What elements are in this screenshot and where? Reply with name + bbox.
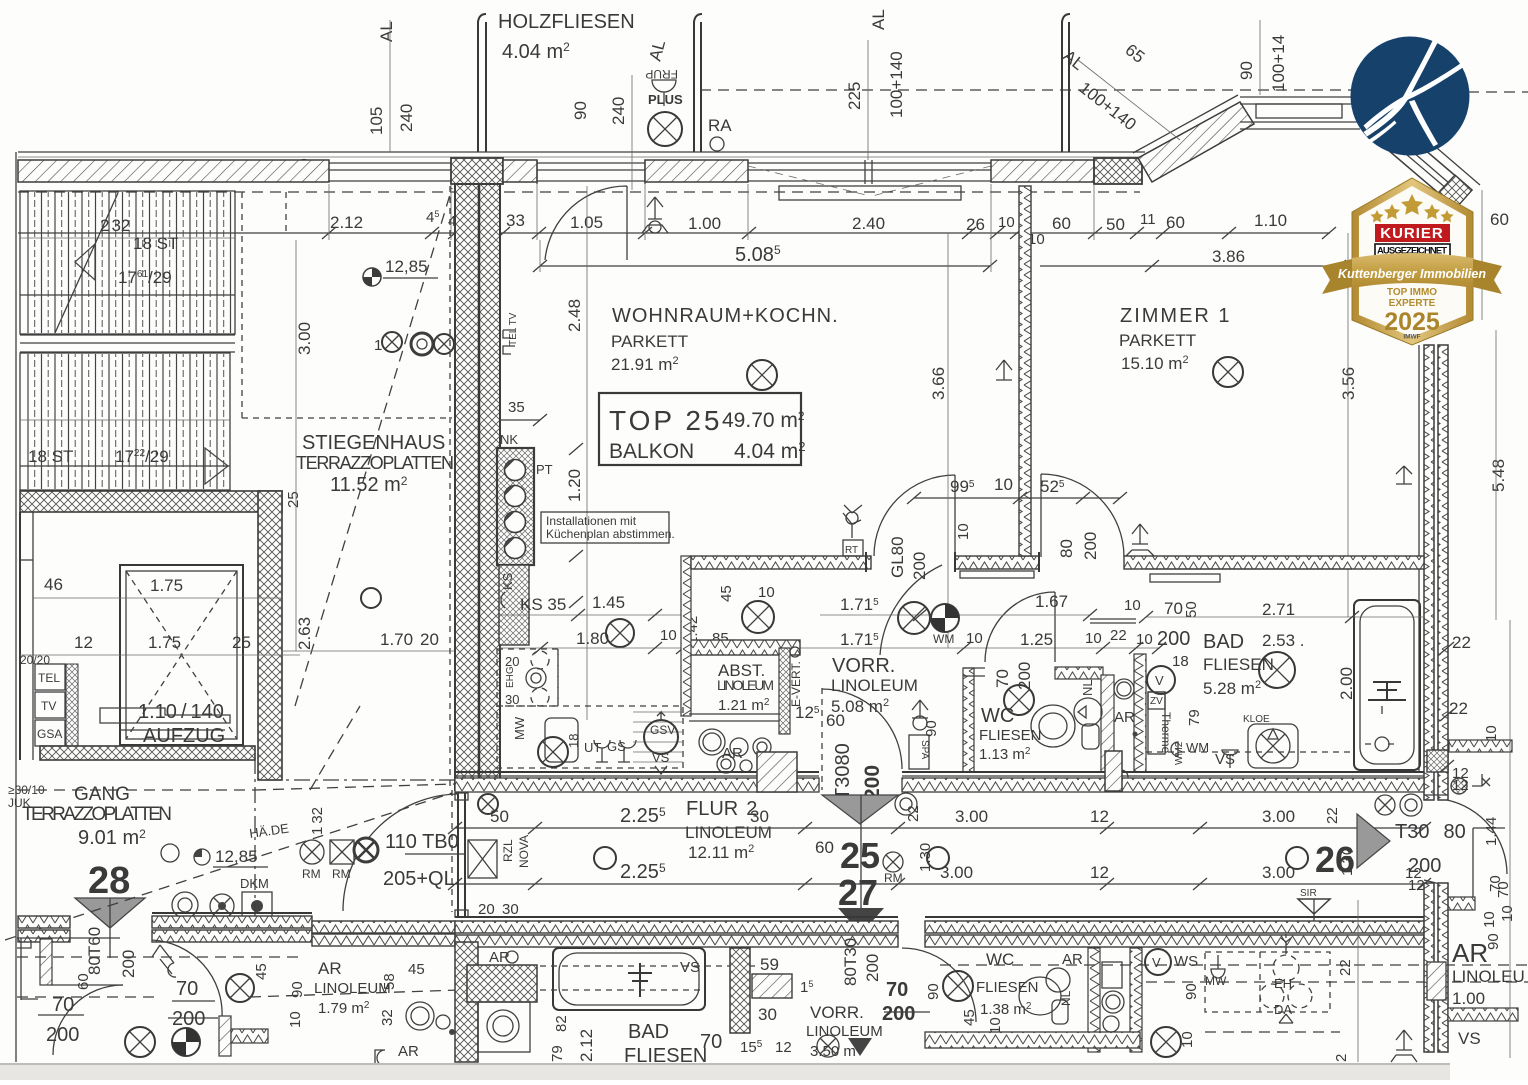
svg-text:1.00: 1.00 <box>1452 989 1485 1008</box>
svg-text:110 TB0: 110 TB0 <box>385 831 459 853</box>
corridor south wall segments <box>18 913 1424 947</box>
ribbon <box>1322 259 1352 294</box>
bathtub <box>1354 600 1420 770</box>
svg-text:1.21 m2: 1.21 m2 <box>718 697 770 714</box>
svg-text:105: 105 <box>367 107 386 135</box>
long dashed diagonal HAE.DE line <box>5 793 452 940</box>
svg-text:1.45: 1.45 <box>592 593 625 612</box>
horizontal bathtub <box>553 948 705 1010</box>
svg-text:AR: AR <box>318 959 342 978</box>
svg-text:50: 50 <box>1183 601 1200 618</box>
balcony rail mid <box>694 14 702 152</box>
svg-text:WOHNRAUM+KOCHN.: WOHNRAUM+KOCHN. <box>612 305 839 327</box>
svg-text:9.01 m2: 9.01 m2 <box>78 827 146 849</box>
corridor north wall (y772-793) left segment <box>455 772 819 792</box>
wall segment hatched right <box>991 160 1094 182</box>
svg-text:PARKETT: PARKETT <box>1119 331 1196 350</box>
svg-text:SPA: SPA <box>919 740 930 760</box>
svg-text:VS: VS <box>680 959 700 976</box>
svg-text:26: 26 <box>1315 839 1355 880</box>
svg-text:15.10 m2: 15.10 m2 <box>1121 354 1189 373</box>
svg-text:100+14: 100+14 <box>1269 35 1288 92</box>
wall + 59 box <box>730 948 750 1033</box>
svg-text:VS: VS <box>1458 1029 1481 1048</box>
dashed line above wall right half <box>700 89 1352 91</box>
svg-text:82: 82 <box>553 1015 570 1032</box>
svg-text:2: 2 <box>1333 1054 1350 1062</box>
svg-text:4.04 m2: 4.04 m2 <box>502 40 570 63</box>
stars <box>1371 194 1454 222</box>
svg-text:240: 240 <box>397 104 416 132</box>
svg-text:80T60: 80T60 <box>85 927 104 975</box>
svg-text:T3080: T3080 <box>832 743 854 800</box>
svg-text:DA: DA <box>1274 1002 1292 1017</box>
ABST west wall <box>681 556 691 716</box>
walls wc apt27 <box>1088 948 1100 1052</box>
svg-text:WM: WM <box>1186 740 1209 755</box>
elevator shaft box <box>120 565 243 745</box>
circle in stiegenhaus <box>361 588 381 608</box>
svg-text:200: 200 <box>1081 532 1100 560</box>
balcony dashes under wall <box>18 191 1140 193</box>
svg-text:11: 11 <box>1140 211 1156 228</box>
svg-text:AR: AR <box>722 745 743 762</box>
svg-text:200: 200 <box>119 950 138 978</box>
balcony door arc into wohnraum <box>545 186 627 260</box>
svg-text:BAD: BAD <box>628 1021 669 1043</box>
svg-text:12,85: 12,85 <box>215 847 258 866</box>
mid-left BAD (apt 28) <box>455 942 478 1062</box>
entry opening pier hatched <box>757 752 797 792</box>
dash-dot vertical line <box>254 758 256 930</box>
vertical ext lines from wall to dim row <box>329 184 1094 272</box>
svg-text:90: 90 <box>571 101 590 120</box>
svg-text:LINOLEU: LINOLEU <box>1452 967 1525 986</box>
svg-text:EH: EH <box>1274 976 1292 991</box>
svg-text:10: 10 <box>955 523 972 540</box>
toilet apt27 <box>1019 977 1061 1015</box>
svg-text:22: 22 <box>1449 699 1468 718</box>
svg-text:30: 30 <box>505 692 519 707</box>
RT box + radiator <box>843 540 863 556</box>
survey point 12.85 <box>161 844 179 862</box>
svg-text:Installationen mit: Installationen mit <box>546 514 637 528</box>
svg-text:1.25: 1.25 <box>1020 630 1053 649</box>
svg-text:1.70: 1.70 <box>380 630 413 649</box>
toilet wc <box>1031 705 1075 747</box>
door 80 arc <box>1041 474 1124 557</box>
RZL box <box>468 840 497 878</box>
svg-text:NL: NL <box>1059 990 1073 1006</box>
door arc apt 27 <box>902 948 976 1022</box>
svg-text:70: 70 <box>700 1031 722 1053</box>
dash-dot corridor boundary left <box>265 779 455 781</box>
svg-text:200: 200 <box>46 1024 79 1046</box>
svg-text:AL: AL <box>377 21 396 42</box>
svg-text:132: 132 <box>309 807 326 835</box>
svg-text:10: 10 <box>994 475 1013 494</box>
svg-text:30: 30 <box>758 1005 777 1024</box>
svg-text:70: 70 <box>176 978 198 1000</box>
svg-text:80: 80 <box>1057 539 1076 558</box>
ABST room top wall <box>683 640 800 655</box>
svg-text:KURIER: KURIER <box>1380 225 1444 242</box>
svg-text:10: 10 <box>998 214 1015 231</box>
svg-text:70: 70 <box>993 669 1012 688</box>
svg-text:BALKON: BALKON <box>609 440 694 463</box>
dim lines mid <box>820 614 1090 616</box>
svg-text:2.12: 2.12 <box>330 213 363 232</box>
svg-text:10: 10 <box>1085 630 1102 647</box>
svg-text:45: 45 <box>718 585 735 602</box>
svg-text:GSV: GSV <box>650 723 675 737</box>
svg-text:RT: RT <box>845 545 858 556</box>
svg-text:FLIESEN: FLIESEN <box>979 727 1042 744</box>
svg-text:2025: 2025 <box>1384 308 1440 336</box>
svg-text:PT: PT <box>536 462 553 477</box>
svg-text:ZIMMER 1: ZIMMER 1 <box>1120 305 1232 327</box>
svg-text:3.00: 3.00 <box>1262 807 1295 826</box>
svg-text:90: 90 <box>1237 61 1256 80</box>
svg-text:205+QL: 205+QL <box>383 868 455 890</box>
svg-text:2.12: 2.12 <box>577 1029 596 1062</box>
radiator zimmer south <box>1126 524 1154 556</box>
svg-text:2.40: 2.40 <box>852 214 885 233</box>
wall wc/ar vertical <box>1101 675 1114 772</box>
pier cross-hatched (top of wohnraum west wall) <box>451 158 503 184</box>
svg-text:225: 225 <box>845 82 864 110</box>
svg-text:1.80: 1.80 <box>576 629 609 648</box>
svg-text:WM: WM <box>933 632 954 646</box>
svg-text:VORR.: VORR. <box>832 655 895 677</box>
svg-text:200: 200 <box>910 552 929 580</box>
svg-text:90: 90 <box>1485 933 1502 950</box>
stair arrow flight 1 <box>75 244 95 280</box>
BAD top wall <box>1124 556 1424 569</box>
window segment (1.05 balcony door) <box>537 160 645 184</box>
svg-text:3.56: 3.56 <box>1339 367 1358 400</box>
svg-text:1.05: 1.05 <box>570 213 603 232</box>
svg-text:ZV: ZV <box>1150 696 1163 707</box>
dashed sliding indication <box>748 166 991 196</box>
svg-text:60: 60 <box>1052 214 1071 233</box>
KS symbol <box>501 592 505 608</box>
svg-text:79: 79 <box>1186 709 1203 726</box>
west wall of wohnraum (cross hatched) <box>455 184 500 790</box>
svg-text:MW: MW <box>1205 974 1227 988</box>
svg-text:AR: AR <box>489 949 510 966</box>
hatch strip right of TEL boxes <box>66 664 78 746</box>
svg-text:≥30/10: ≥30/10 <box>8 783 45 797</box>
svg-text:12: 12 <box>1405 865 1422 882</box>
svg-text:IMWF: IMWF <box>1403 334 1420 341</box>
main dimension row line <box>18 232 1330 234</box>
wall AR bottom <box>1448 1008 1518 1021</box>
arrow triangle 28 <box>75 898 145 928</box>
bottom wall apt27 <box>925 1032 1140 1048</box>
svg-text:12: 12 <box>1090 863 1109 882</box>
mid landing <box>20 334 235 336</box>
svg-text:22: 22 <box>1324 807 1341 824</box>
svg-text:20: 20 <box>420 630 439 649</box>
elevator bottom wall <box>40 746 255 760</box>
svg-text:LINOLEUM: LINOLEUM <box>314 980 391 997</box>
svg-text:TEL: TEL <box>38 671 60 685</box>
svg-text:12: 12 <box>1090 807 1109 826</box>
svg-text:1.00: 1.00 <box>688 214 721 233</box>
svg-text:200: 200 <box>172 1008 205 1030</box>
svg-text:5.48: 5.48 <box>1489 459 1508 492</box>
ABST bottom wall <box>689 713 779 715</box>
wall band segment hatched (left above stairs) <box>18 160 329 182</box>
svg-text:10: 10 <box>758 584 775 601</box>
window sill rect below 2.40 <box>779 186 961 200</box>
svg-text:10: 10 <box>1179 1031 1196 1048</box>
left wall stubs bottom <box>40 939 52 985</box>
balcony rail left <box>478 14 486 152</box>
svg-text:E-VERT.: E-VERT. <box>789 661 803 707</box>
top-right horizontal wall (behind logo) <box>1240 97 1360 129</box>
svg-text:1.10: 1.10 <box>1254 211 1287 230</box>
vorr door arc big <box>880 565 942 655</box>
svg-text:90: 90 <box>925 983 942 1000</box>
svg-text:Kuttenberger Immobilien: Kuttenberger Immobilien <box>1338 267 1486 281</box>
AUSGEZEICHNET box <box>1375 244 1450 256</box>
svg-text:TOP IMMO: TOP IMMO <box>1387 287 1437 298</box>
svg-text:TERRAZZOPLATTEN: TERRAZZOPLATTEN <box>296 453 454 473</box>
svg-text:12: 12 <box>74 633 93 652</box>
TEL TV GSA boxes <box>35 664 65 690</box>
left dim extension lines <box>295 240 297 651</box>
svg-text:1.79 m2: 1.79 m2 <box>318 1000 370 1017</box>
svg-text:26: 26 <box>966 215 985 234</box>
radiator + spa vorr <box>912 700 928 718</box>
svg-text:HOLZFLIESEN: HOLZFLIESEN <box>498 11 635 33</box>
svg-text:22: 22 <box>1337 959 1354 976</box>
flur dim row 1 <box>455 827 1424 829</box>
svg-text:50: 50 <box>1106 215 1125 234</box>
svg-text:GL80: GL80 <box>888 536 907 578</box>
svg-text:RA: RA <box>708 116 732 135</box>
svg-text:STIEGENHAUS: STIEGENHAUS <box>302 432 445 454</box>
svg-text:WC: WC <box>981 705 1014 727</box>
svg-text:22: 22 <box>905 805 922 822</box>
svg-text:NOVA: NOVA <box>517 835 531 868</box>
dim ticks <box>322 227 1336 239</box>
svg-text:45: 45 <box>253 963 270 980</box>
svg-text:V: V <box>1155 673 1164 688</box>
lamp circle-x <box>648 112 682 146</box>
svg-text:49.70 m2: 49.70 m2 <box>722 409 805 432</box>
svg-text:25: 25 <box>232 633 251 652</box>
svg-text:90: 90 <box>1183 983 1200 1000</box>
svg-text:60: 60 <box>1166 213 1185 232</box>
GANG dashed boundary <box>18 789 255 791</box>
svg-text:NK: NK <box>500 432 518 447</box>
svg-text:5.28 m2: 5.28 m2 <box>1203 679 1261 698</box>
svg-text:AR: AR <box>1114 709 1135 726</box>
radiator V1 left <box>996 360 1012 380</box>
svg-text:2.71: 2.71 <box>1262 600 1295 619</box>
svg-text:32: 32 <box>379 1009 396 1026</box>
svg-text:AL: AL <box>869 9 888 30</box>
svg-text:GANG: GANG <box>74 784 130 805</box>
svg-text:4.04 m2: 4.04 m2 <box>734 439 805 463</box>
svg-text:12: 12 <box>1452 777 1469 794</box>
svg-text:35: 35 <box>508 399 525 416</box>
svg-text:25: 25 <box>285 491 302 508</box>
KURIER red box <box>1375 224 1450 242</box>
svg-text:WS: WS <box>1174 953 1198 970</box>
svg-text:12,85: 12,85 <box>385 257 428 276</box>
svg-text:18 ST: 18 ST <box>28 447 73 466</box>
svg-text:1.75: 1.75 <box>148 633 181 652</box>
stair arrow flight 2 <box>205 448 228 484</box>
lamps vorr <box>898 602 930 634</box>
H1 mid wall under V1 <box>955 556 1039 569</box>
svg-text:EHG: EHG <box>505 666 516 688</box>
svg-text:BAD: BAD <box>1203 631 1244 653</box>
dishwasher dashes <box>633 712 683 762</box>
svg-text:46: 46 <box>44 575 63 594</box>
svg-text:58: 58 <box>381 973 398 990</box>
window segment (stiegenhaus) <box>329 163 451 181</box>
sinks below abst <box>699 729 725 755</box>
door arc B (apt 28 entry) <box>152 940 222 1018</box>
svg-text:90: 90 <box>923 720 940 737</box>
svg-text:1: 1 <box>374 337 382 354</box>
svg-text:22: 22 <box>1452 633 1471 652</box>
svg-text:18: 18 <box>1172 653 1189 670</box>
svg-text:200: 200 <box>882 1003 915 1025</box>
svg-text:NL: NL <box>1080 679 1095 696</box>
svg-text:33: 33 <box>506 211 525 230</box>
svg-text:AR: AR <box>1452 938 1488 968</box>
svg-text:AR: AR <box>398 1043 419 1060</box>
core right wall (cross hatch) <box>258 491 282 780</box>
core wall band below stairs (cross hatch) <box>20 491 282 512</box>
svg-text:27: 27 <box>838 872 878 913</box>
wall x1134 vertical <box>1134 654 1146 772</box>
svg-text:1.67: 1.67 <box>1035 592 1068 611</box>
wall H1 left part (RT wall) <box>691 556 871 569</box>
placeholder sections <box>5 152 455 1062</box>
svg-text:LINOLEUM: LINOLEUM <box>717 677 774 693</box>
svg-text:45: 45 <box>961 1009 978 1026</box>
svg-text:10: 10 <box>1124 597 1141 614</box>
diagonal window wall right of logo going down <box>1374 120 1472 208</box>
wc room <box>963 668 974 772</box>
installationen note box <box>541 512 669 543</box>
svg-text:79: 79 <box>549 1045 566 1062</box>
svg-text:3.86: 3.86 <box>1212 247 1245 266</box>
svg-text:50: 50 <box>490 807 509 826</box>
TEL TV symbols on wall <box>503 330 515 354</box>
wall segment hatched <box>503 160 537 182</box>
svg-text:80T30: 80T30 <box>841 938 860 986</box>
svg-text:TEL TV: TEL TV <box>508 312 519 346</box>
stair flight 1 (upper) <box>20 191 235 334</box>
svg-text:90: 90 <box>289 981 306 998</box>
svg-text:TV: TV <box>41 699 56 713</box>
svg-text:70: 70 <box>1487 875 1504 892</box>
svg-text:AUFZUG: AUFZUG <box>143 725 225 747</box>
svg-text:1.38 m2: 1.38 m2 <box>980 1001 1032 1018</box>
svg-text:WM2: WM2 <box>1174 741 1185 765</box>
elevator door sill steps <box>100 708 230 723</box>
stair flight 2 (lower) <box>20 353 230 490</box>
sink <box>545 718 578 762</box>
svg-text:11.52 m2: 11.52 m2 <box>330 474 408 496</box>
svg-text:28: 28 <box>88 860 130 902</box>
svg-text:RZL: RZL <box>501 839 515 862</box>
svg-text:3.66: 3.66 <box>929 367 948 400</box>
tele boxes symbols left of lift at 46 <box>20 559 33 561</box>
wc top wall right part <box>1055 667 1103 679</box>
svg-text:KS: KS <box>500 572 515 590</box>
RM symbols <box>300 840 324 864</box>
lamp wohnraum <box>747 360 777 390</box>
small hatched box right wall <box>1427 962 1446 1000</box>
window segment wide (2.40) <box>748 160 991 184</box>
svg-text:232: 232 <box>100 216 130 235</box>
door pier bottom <box>219 1016 231 1056</box>
svg-text:PLUS: PLUS <box>648 92 683 107</box>
svg-text:3.00: 3.00 <box>295 322 314 355</box>
pier cross-hatched right <box>1094 158 1142 184</box>
right wall bottom continuation <box>1424 883 1434 1052</box>
diagonal wall up-right <box>1138 102 1254 182</box>
svg-text:20: 20 <box>478 901 495 918</box>
radiator symbol near balcony door <box>642 197 668 233</box>
svg-text:TOP 25: TOP 25 <box>609 405 722 436</box>
left border line <box>15 152 17 1062</box>
svg-text:12: 12 <box>775 1039 792 1056</box>
svg-text:45: 45 <box>408 961 425 978</box>
top exterior wall: top edge line <box>18 151 1145 153</box>
bottom scan strip <box>0 1063 1450 1080</box>
svg-text:MW: MW <box>512 716 527 740</box>
door GL80 arc <box>874 475 955 556</box>
svg-text:1.20: 1.20 <box>565 469 584 502</box>
second dim line 5.08 <box>540 265 990 267</box>
entry door arc T3080 <box>821 688 823 790</box>
svg-text:FRUP: FRUP <box>645 67 678 81</box>
wc door arc <box>985 592 1055 662</box>
svg-text:1.10/140: 1.10/140 <box>138 701 224 723</box>
svg-text:12.11 m2: 12.11 m2 <box>688 843 754 862</box>
dim 12.85 upper <box>363 268 381 286</box>
svg-text:V: V <box>1152 955 1161 970</box>
svg-text:200: 200 <box>863 954 882 982</box>
svg-text:60: 60 <box>75 973 92 990</box>
svg-text:GSA: GSA <box>37 727 62 741</box>
stair landing dashed lines <box>241 192 243 418</box>
svg-text:70: 70 <box>886 979 908 1001</box>
radiator bottom right <box>1391 1030 1417 1062</box>
svg-text:200: 200 <box>1157 628 1190 650</box>
svg-text:1.75: 1.75 <box>150 576 183 595</box>
svg-text:PARKETT: PARKETT <box>611 332 688 351</box>
radiator right wall <box>1396 466 1412 484</box>
DKM symbols <box>172 892 198 918</box>
TOP 25 box <box>599 393 801 465</box>
svg-text:18 ST: 18 ST <box>133 234 178 253</box>
V1 wall between wohnraum and zimmer1 <box>1019 186 1031 556</box>
svg-text:WC: WC <box>986 950 1014 969</box>
stair flight 1 run diagonal <box>55 193 118 333</box>
svg-text:18: 18 <box>566 734 581 748</box>
